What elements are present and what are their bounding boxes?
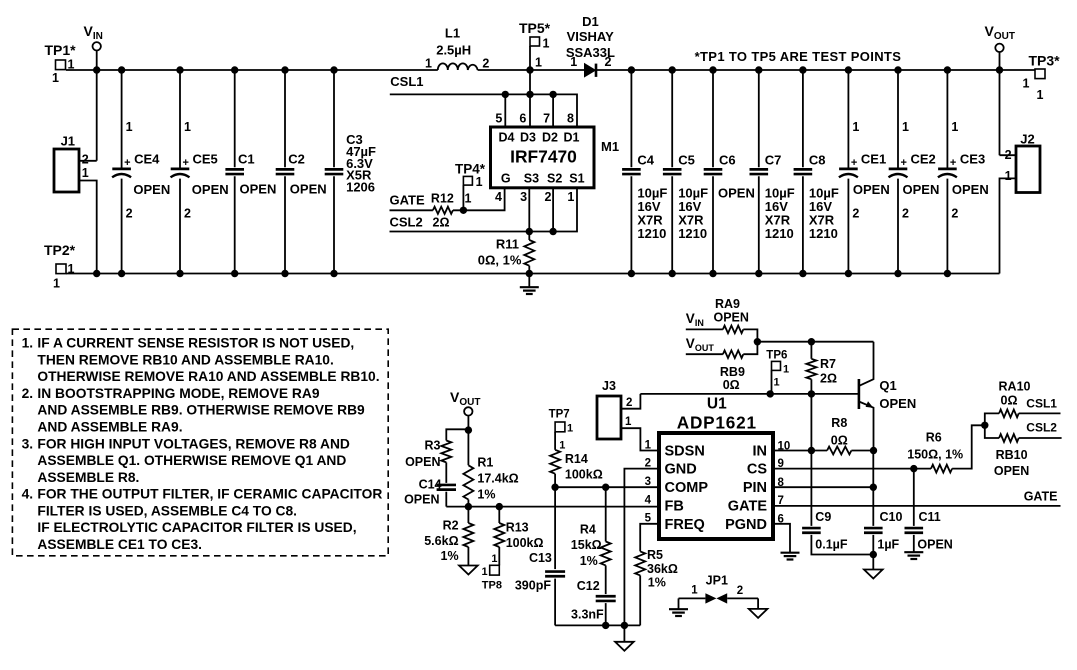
svg-text:3.3nF: 3.3nF xyxy=(571,608,604,622)
svg-text:1.: 1. xyxy=(22,336,34,351)
svg-text:2: 2 xyxy=(951,207,958,221)
wire J3 pin1 to SDSN pin1 xyxy=(621,428,659,450)
svg-text:R7: R7 xyxy=(820,357,836,371)
svg-text:GATE: GATE xyxy=(390,192,425,207)
svg-text:R5: R5 xyxy=(647,548,663,562)
svg-text:S2: S2 xyxy=(547,172,562,186)
ground below R2 xyxy=(467,547,469,566)
svg-text:AND ASSEMBLE RA9.: AND ASSEMBLE RA9. xyxy=(37,420,182,435)
resistor R12 2ohm xyxy=(431,192,454,230)
svg-text:1: 1 xyxy=(82,166,89,180)
resistor R11 0ohm xyxy=(478,237,535,268)
svg-text:1: 1 xyxy=(535,56,542,70)
svg-text:C12: C12 xyxy=(577,579,600,593)
svg-text:TP8: TP8 xyxy=(482,580,502,592)
svg-text:TP5*: TP5* xyxy=(519,20,551,36)
svg-text:D4: D4 xyxy=(499,131,515,145)
wire R3 to C14 xyxy=(445,462,447,483)
wire branch to R3 xyxy=(446,429,468,440)
wire R7 bottom / C9 branch xyxy=(810,394,812,526)
capacitor C6 (OPEN) xyxy=(704,70,755,274)
svg-text:C2: C2 xyxy=(288,152,305,167)
junction dots CSL2 line xyxy=(526,228,533,235)
svg-text:VISHAY: VISHAY xyxy=(567,29,615,44)
wire bottom analog ground node xyxy=(555,624,640,626)
svg-text:1: 1 xyxy=(1037,88,1044,102)
resistor R5 36k xyxy=(635,548,678,590)
svg-text:1: 1 xyxy=(774,377,780,389)
svg-text:100kΩ: 100kΩ xyxy=(506,536,544,550)
svg-text:1µF: 1µF xyxy=(877,538,899,552)
wire C14 to FB line xyxy=(445,492,447,507)
svg-text:1: 1 xyxy=(1005,169,1012,183)
wire fork to RA10 xyxy=(985,413,999,425)
svg-text:1206: 1206 xyxy=(346,179,375,194)
svg-text:OTHERWISE REMOVE RA10 AND ASSE: OTHERWISE REMOVE RA10 AND ASSEMBLE RB10. xyxy=(37,369,379,384)
svg-text:TP2*: TP2* xyxy=(44,242,76,258)
wire CSL1 line to MOSFET drains xyxy=(390,94,577,127)
svg-text:C13: C13 xyxy=(529,551,552,565)
wire GATE line xyxy=(390,188,505,211)
wire base line from J3 pin2 to Q1 xyxy=(640,393,859,395)
svg-text:IF A CURRENT SENSE RESISTOR IS: IF A CURRENT SENSE RESISTOR IS NOT USED, xyxy=(37,336,354,351)
wire bottom return rail xyxy=(66,273,1000,275)
assembly notes box xyxy=(12,329,388,556)
junction dots bottom rail xyxy=(93,270,100,277)
svg-text:RB10: RB10 xyxy=(996,448,1028,462)
svg-text:4: 4 xyxy=(645,495,652,507)
resistor R2 5.6k xyxy=(424,507,473,563)
svg-text:OPEN: OPEN xyxy=(713,311,748,325)
jumper JP1 xyxy=(679,574,759,604)
test point TP8 xyxy=(481,547,502,592)
svg-text:OPEN: OPEN xyxy=(290,182,327,197)
wire R5 to bottom node xyxy=(639,575,641,625)
capacitor C4 10uF xyxy=(622,70,667,274)
diode D1 VISHAY SSA33L xyxy=(566,14,615,77)
wire PIN pin8 to emitter node xyxy=(773,486,873,488)
svg-text:J3: J3 xyxy=(602,379,616,393)
ground below PGND xyxy=(781,552,800,554)
svg-text:FREQ: FREQ xyxy=(665,517,705,533)
svg-text:FB: FB xyxy=(665,499,684,515)
ground at JP1 pin1 xyxy=(678,598,680,609)
wire C13 to bottom node xyxy=(554,579,556,626)
svg-text:R14: R14 xyxy=(565,452,588,466)
svg-text:2: 2 xyxy=(737,585,743,597)
capacitor C12 3.3nF xyxy=(571,565,616,621)
svg-text:IN BOOTSTRAPPING MODE, REMOVE: IN BOOTSTRAPPING MODE, REMOVE RA9 xyxy=(37,386,319,401)
wire TP6 drop xyxy=(771,370,773,394)
resistor R14 100k xyxy=(550,432,603,482)
svg-text:R1: R1 xyxy=(477,456,493,470)
wire RB9 to bootstrap node xyxy=(743,342,757,355)
svg-text:C11: C11 xyxy=(919,510,941,524)
ground below bottom node xyxy=(623,625,625,641)
svg-text:OPEN: OPEN xyxy=(133,182,170,197)
svg-text:0Ω, 1%: 0Ω, 1% xyxy=(478,252,522,267)
svg-text:1%: 1% xyxy=(648,575,666,589)
svg-text:C5: C5 xyxy=(678,153,695,168)
svg-text:36kΩ: 36kΩ xyxy=(647,562,678,576)
capacitor C7 10uF xyxy=(750,70,795,274)
svg-text:1: 1 xyxy=(567,190,574,204)
svg-text:1: 1 xyxy=(481,566,487,578)
svg-text:CE3: CE3 xyxy=(960,152,985,167)
svg-text:OPEN: OPEN xyxy=(404,492,439,506)
wire top VOUT rail after D1 xyxy=(597,69,1035,71)
wire IN pin10 to R8 xyxy=(773,450,827,452)
svg-text:+: + xyxy=(851,157,857,169)
svg-text:U1: U1 xyxy=(707,396,727,413)
wire Q1 emitter / C10 branch xyxy=(872,451,874,526)
inductor L1 2.5uH xyxy=(425,26,489,71)
svg-text:ASSEMBLE Q1. OTHERWISE REMOVE: ASSEMBLE Q1. OTHERWISE REMOVE Q1 AND xyxy=(37,453,346,468)
svg-text:GATE: GATE xyxy=(728,499,768,515)
svg-text:OPEN: OPEN xyxy=(853,182,890,197)
svg-text:PIN: PIN xyxy=(743,480,767,496)
svg-text:0.1µF: 0.1µF xyxy=(815,538,848,552)
wire FB line (pin 4) xyxy=(446,506,659,508)
svg-text:CSL1: CSL1 xyxy=(390,74,423,89)
capacitor C13 390pF xyxy=(515,551,565,593)
svg-text:5: 5 xyxy=(495,112,502,126)
wire RA9 to bootstrap node xyxy=(743,329,757,341)
svg-text:2Ω: 2Ω xyxy=(433,216,450,230)
resistor RB9 0ohm xyxy=(720,350,745,392)
svg-text:J2: J2 xyxy=(1020,132,1034,147)
svg-text:CSL1: CSL1 xyxy=(1026,397,1057,411)
wire CS pin9 line xyxy=(773,468,931,470)
node VIN terminal xyxy=(84,23,103,51)
wire RB10 to CSL2 xyxy=(1019,437,1062,439)
svg-text:R3: R3 xyxy=(425,439,441,453)
svg-text:THEN REMOVE RB10 AND ASSEMBLE: THEN REMOVE RB10 AND ASSEMBLE RA10. xyxy=(37,352,333,367)
svg-text:3: 3 xyxy=(520,190,527,204)
svg-text:1%: 1% xyxy=(580,554,598,568)
svg-text:IN: IN xyxy=(753,444,768,460)
svg-text:1: 1 xyxy=(465,192,472,206)
resistor RA9 (OPEN) xyxy=(713,297,748,333)
svg-text:R6: R6 xyxy=(926,431,942,445)
test point TP1 xyxy=(44,42,76,85)
svg-text:FILTER IS USED, ASSEMBLE C4 TO: FILTER IS USED, ASSEMBLE C4 TO C8. xyxy=(37,503,297,518)
svg-text:1: 1 xyxy=(126,120,133,134)
svg-text:J1: J1 xyxy=(61,134,75,149)
test point TP6 xyxy=(766,350,789,389)
svg-text:CE2: CE2 xyxy=(911,152,936,167)
svg-text:1: 1 xyxy=(691,584,698,596)
svg-text:ADP1621: ADP1621 xyxy=(677,413,757,433)
wire R7 to base line xyxy=(810,379,812,394)
node VOUT terminal (feedback) xyxy=(450,389,480,416)
svg-text:1: 1 xyxy=(645,439,652,451)
svg-text:C4: C4 xyxy=(637,153,654,168)
wire C12 to bottom node xyxy=(605,603,607,625)
svg-text:CE4: CE4 xyxy=(134,152,160,167)
ground below C10 xyxy=(864,570,883,579)
svg-text:4: 4 xyxy=(495,190,502,204)
svg-text:C14: C14 xyxy=(419,478,442,492)
resistor RA10 0ohm xyxy=(999,380,1031,418)
wire top rail after L1 xyxy=(478,69,585,71)
svg-text:M1: M1 xyxy=(601,139,619,154)
capacitor C1 (OPEN) xyxy=(225,70,276,274)
capacitor CE1 (OPEN) xyxy=(839,70,890,274)
svg-text:ASSEMBLE R8.: ASSEMBLE R8. xyxy=(37,470,139,485)
svg-text:OPEN: OPEN xyxy=(903,182,940,197)
svg-text:G: G xyxy=(501,172,511,186)
svg-text:TP7: TP7 xyxy=(549,409,570,421)
svg-text:100kΩ: 100kΩ xyxy=(565,467,603,481)
wire VIN to RA9 xyxy=(686,328,723,330)
svg-text:0Ω: 0Ω xyxy=(723,378,740,392)
svg-text:C1: C1 xyxy=(238,152,255,167)
svg-text:+: + xyxy=(950,157,956,169)
wire COMP line (pin 3) xyxy=(555,486,659,488)
wire CSL2 line to MOSFET sources xyxy=(390,188,578,232)
resistor RB10 (OPEN) xyxy=(994,434,1029,478)
wire CS to C11 xyxy=(913,469,915,526)
capacitor C10 1uF xyxy=(864,510,902,551)
svg-text:1210: 1210 xyxy=(678,226,707,241)
resistor R6 150ohm xyxy=(907,431,963,473)
junction dots top rail xyxy=(93,66,100,73)
svg-text:L1: L1 xyxy=(445,26,460,41)
svg-text:IF ELECTROLYTIC CAPACITOR FILT: IF ELECTROLYTIC CAPACITOR FILTER IS USED… xyxy=(37,520,356,535)
ground below R11 xyxy=(528,274,530,288)
ground at JP1 pin2 xyxy=(757,598,759,609)
svg-text:RA9: RA9 xyxy=(715,297,740,311)
svg-text:CS: CS xyxy=(747,462,767,478)
capacitor CE2 (OPEN) xyxy=(889,70,940,274)
test point TP2 xyxy=(44,242,76,290)
wire C10 to ground xyxy=(872,535,874,570)
svg-text:C9: C9 xyxy=(815,510,831,524)
transistor Q1 (OPEN) xyxy=(859,342,916,451)
wire GND pin2 to ground node xyxy=(624,469,659,626)
svg-text:150Ω, 1%: 150Ω, 1% xyxy=(907,447,963,461)
svg-text:FOR THE OUTPUT FILTER, IF CERA: FOR THE OUTPUT FILTER, IF CERAMIC CAPACI… xyxy=(37,487,382,502)
svg-text:1210: 1210 xyxy=(765,226,794,241)
wire R11 to bottom rail xyxy=(528,266,530,274)
wire J2 pin1 to bottom rail xyxy=(1000,178,1017,273)
capacitor CE5 (OPEN) xyxy=(171,70,229,274)
svg-text:Q1: Q1 xyxy=(879,378,896,393)
svg-text:1: 1 xyxy=(559,439,565,451)
svg-text:2: 2 xyxy=(645,458,651,470)
svg-text:RB9: RB9 xyxy=(720,365,745,379)
svg-text:0Ω: 0Ω xyxy=(1001,394,1018,408)
svg-text:FOR HIGH INPUT VOLTAGES, REMOV: FOR HIGH INPUT VOLTAGES, REMOVE R8 AND xyxy=(37,436,350,451)
svg-text:COMP: COMP xyxy=(665,480,709,496)
svg-text:RA10: RA10 xyxy=(999,380,1031,394)
capacitor CE3 (OPEN) xyxy=(938,70,989,274)
svg-text:1: 1 xyxy=(52,71,59,85)
svg-text:GATE: GATE xyxy=(1024,489,1058,503)
svg-text:1210: 1210 xyxy=(637,226,666,241)
svg-text:1: 1 xyxy=(476,175,483,189)
wire VOUT to RB9 xyxy=(686,353,723,355)
svg-text:2: 2 xyxy=(544,190,551,204)
junction dots CSL1 line xyxy=(502,91,509,98)
svg-text:1: 1 xyxy=(902,120,909,134)
ground below C11 xyxy=(913,535,915,552)
svg-text:+: + xyxy=(183,157,189,169)
svg-text:GND: GND xyxy=(665,462,697,478)
svg-text:SDSN: SDSN xyxy=(665,444,705,460)
wire TP4 drop to GATE line xyxy=(462,185,464,210)
svg-text:2: 2 xyxy=(482,57,489,71)
svg-text:D1: D1 xyxy=(582,14,599,29)
svg-text:5.6kΩ: 5.6kΩ xyxy=(424,534,458,548)
svg-text:1210: 1210 xyxy=(809,226,838,241)
wire C13 branch down xyxy=(554,487,556,569)
svg-text:17.4kΩ: 17.4kΩ xyxy=(477,471,518,485)
capacitor C14 (OPEN) xyxy=(404,478,456,507)
svg-text:C6: C6 xyxy=(719,153,736,168)
svg-text:2: 2 xyxy=(852,207,859,221)
capacitor CE4 (OPEN) xyxy=(112,70,170,274)
wire R6 up to CSL fork xyxy=(952,425,985,468)
svg-text:1%: 1% xyxy=(441,549,459,563)
svg-text:OPEN: OPEN xyxy=(994,464,1029,478)
wire R14 to COMP line xyxy=(554,474,556,488)
svg-text:1: 1 xyxy=(1022,77,1029,91)
svg-text:7: 7 xyxy=(543,112,550,126)
svg-text:3: 3 xyxy=(645,476,651,488)
resistor R3 (OPEN) xyxy=(405,439,451,470)
svg-text:S3: S3 xyxy=(524,172,539,186)
svg-text:1: 1 xyxy=(543,37,550,51)
wire VIN drop to J1 pin2 xyxy=(79,50,97,161)
resistor R1 17.4k xyxy=(463,456,518,502)
connector J1 xyxy=(54,134,89,192)
wire TP5 to rail to CSL1 to M1 pin6 xyxy=(529,46,531,127)
svg-text:1: 1 xyxy=(53,276,60,290)
svg-text:1: 1 xyxy=(570,55,577,69)
svg-text:ASSEMBLE CE1 TO CE3.: ASSEMBLE CE1 TO CE3. xyxy=(37,537,202,552)
svg-text:390pF: 390pF xyxy=(515,579,551,593)
svg-text:2: 2 xyxy=(1005,148,1012,162)
wire M1 S3 to R11 xyxy=(528,188,530,240)
resistor R4 15k xyxy=(571,487,611,568)
test point TP5 xyxy=(519,20,551,70)
svg-text:PGND: PGND xyxy=(725,517,767,533)
wire VOUT drop to J2 pin2 xyxy=(1000,52,1017,155)
svg-text:CE1: CE1 xyxy=(861,152,886,167)
svg-text:4.: 4. xyxy=(22,487,34,502)
wire J3 pin2 up to base line xyxy=(621,394,640,409)
wire PGND pin6 to ground xyxy=(773,524,790,553)
svg-text:C7: C7 xyxy=(765,153,782,168)
svg-text:8: 8 xyxy=(567,112,574,126)
capacitor C9 0.1uF xyxy=(802,510,848,551)
svg-text:2: 2 xyxy=(626,397,632,409)
svg-text:*TP1 TO TP5 ARE TEST POINTS: *TP1 TO TP5 ARE TEST POINTS xyxy=(695,49,902,64)
svg-text:2: 2 xyxy=(605,55,612,69)
svg-text:3.: 3. xyxy=(22,436,34,451)
svg-text:OPEN: OPEN xyxy=(718,186,755,201)
wire fork to RB10 xyxy=(985,425,999,438)
svg-text:OPEN: OPEN xyxy=(240,182,277,197)
svg-text:CE5: CE5 xyxy=(193,152,218,167)
svg-text:1: 1 xyxy=(184,120,191,134)
svg-text:1: 1 xyxy=(567,422,573,434)
svg-text:1%: 1% xyxy=(477,487,495,501)
test point TP7 xyxy=(549,409,574,452)
svg-text:2: 2 xyxy=(126,207,133,221)
svg-text:TP1*: TP1* xyxy=(44,42,76,58)
svg-text:1: 1 xyxy=(783,364,789,376)
svg-text:0Ω: 0Ω xyxy=(831,434,848,448)
svg-text:D1: D1 xyxy=(564,131,580,145)
svg-text:C10: C10 xyxy=(880,510,903,524)
svg-text:2.5µH: 2.5µH xyxy=(436,43,471,58)
svg-text:+: + xyxy=(124,157,130,169)
svg-text:1: 1 xyxy=(951,120,958,134)
wire C9 to C10 ground node xyxy=(811,535,873,555)
svg-text:R12: R12 xyxy=(431,192,454,206)
svg-text:D2: D2 xyxy=(542,131,558,145)
capacitor C3 47uF xyxy=(325,70,376,274)
wire RA10 to CSL1 xyxy=(1019,412,1061,414)
wire top VIN rail xyxy=(66,69,438,71)
wire bootstrap top line to Q1 collector xyxy=(757,341,873,343)
capacitor C11 (OPEN) xyxy=(905,510,953,551)
svg-text:15kΩ: 15kΩ xyxy=(571,538,602,552)
svg-text:TP6: TP6 xyxy=(766,350,787,362)
svg-text:1: 1 xyxy=(625,416,632,428)
connector J2 xyxy=(1005,132,1040,193)
junction dots controller section xyxy=(465,426,472,433)
test point TP4 xyxy=(455,162,486,206)
svg-text:1: 1 xyxy=(425,57,432,71)
resistor R13 100k xyxy=(494,507,543,550)
svg-text:6: 6 xyxy=(519,112,526,126)
svg-text:OPEN: OPEN xyxy=(879,396,916,411)
svg-text:AND ASSEMBLE RB9. OTHERWISE RE: AND ASSEMBLE RB9. OTHERWISE REMOVE RB9 xyxy=(37,403,365,418)
capacitor C2 (OPEN) xyxy=(276,70,327,274)
wire R8 to Q1 emitter xyxy=(851,450,873,452)
svg-text:CSL2: CSL2 xyxy=(390,214,423,229)
capacitor C8 10uF xyxy=(794,70,839,274)
svg-text:2Ω: 2Ω xyxy=(820,371,837,385)
svg-text:OPEN: OPEN xyxy=(192,182,229,197)
svg-text:R2: R2 xyxy=(443,519,459,533)
svg-text:IRF7470: IRF7470 xyxy=(510,147,577,167)
svg-text:CSL2: CSL2 xyxy=(1026,421,1057,435)
svg-text:2: 2 xyxy=(82,153,89,167)
wire J1 pin1 to bottom rail xyxy=(79,181,97,274)
svg-text:R4: R4 xyxy=(580,523,596,537)
op-amp U1 ADP1621 xyxy=(645,396,791,540)
svg-text:JP1: JP1 xyxy=(706,574,728,588)
svg-text:+: + xyxy=(901,157,907,169)
svg-text:OPEN: OPEN xyxy=(952,182,989,197)
svg-text:OPEN: OPEN xyxy=(405,455,440,469)
test point TP3 xyxy=(1022,53,1060,103)
svg-text:5: 5 xyxy=(645,513,652,525)
resistor R7 2ohm xyxy=(806,342,837,386)
svg-text:1: 1 xyxy=(491,553,497,565)
svg-text:R13: R13 xyxy=(506,521,529,535)
svg-text:S1: S1 xyxy=(569,172,584,186)
svg-text:R8: R8 xyxy=(831,416,847,430)
svg-text:OPEN: OPEN xyxy=(917,538,952,552)
svg-text:2.: 2. xyxy=(22,386,34,401)
connector J3 xyxy=(597,379,632,439)
